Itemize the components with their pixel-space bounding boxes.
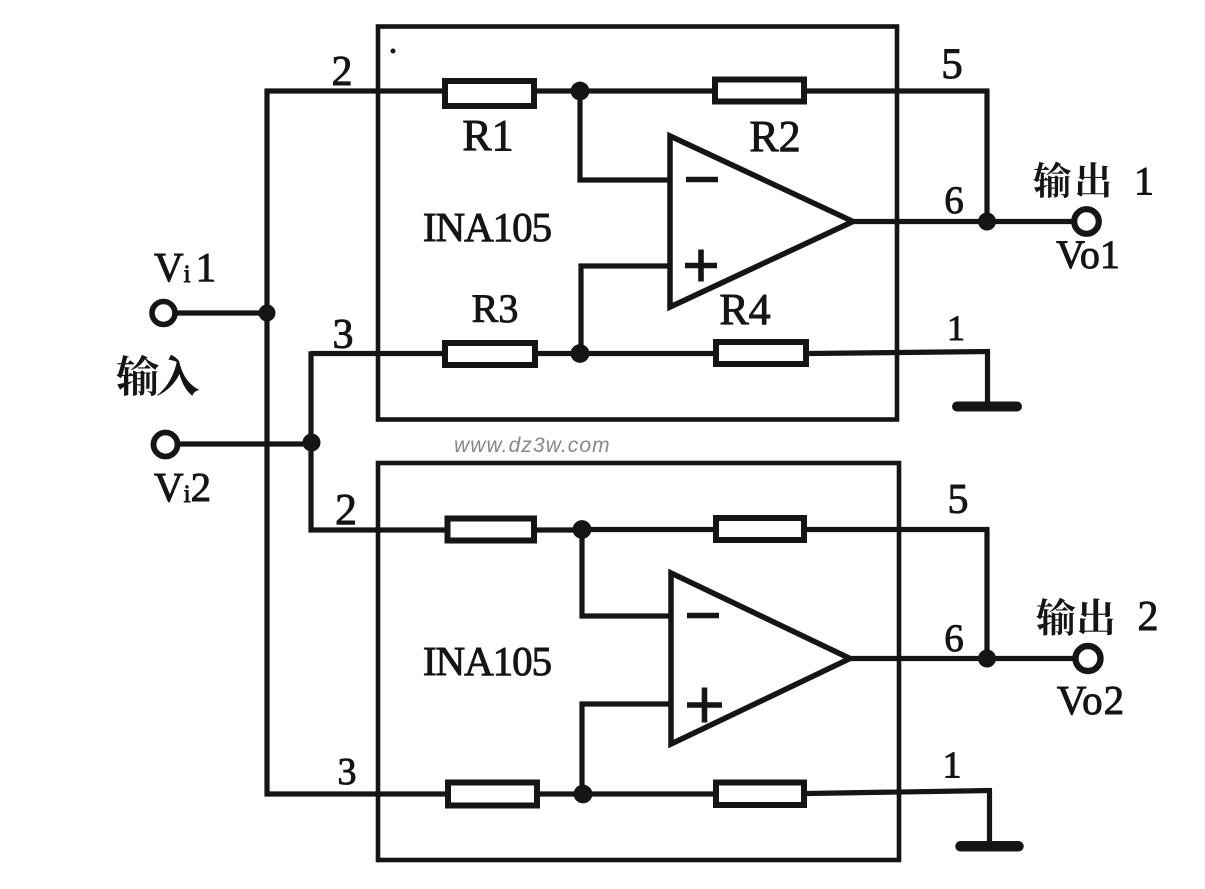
resistor R2 <box>715 80 804 102</box>
label 输出 2 (output 2) <box>1036 598 1113 636</box>
wire R1 to node A <box>537 88 582 93</box>
wire non-inverting input (node B to op-amp U1) <box>581 266 670 354</box>
svg-text:3: 3 <box>338 751 357 793</box>
resistor R1' (bottom block) <box>448 519 535 541</box>
svg-text:1: 1 <box>1134 159 1154 204</box>
svg-text:6: 6 <box>944 179 964 222</box>
node G junction dot (Vi1 tap) <box>259 305 276 322</box>
terminal Vo2 output circle <box>1076 646 1101 671</box>
wire pin1 ground drop <box>985 352 990 404</box>
op-amp U2 triangle <box>671 573 850 744</box>
svg-text:2: 2 <box>335 485 357 534</box>
svg-text:R1: R1 <box>462 111 513 160</box>
svg-text:1: 1 <box>947 308 965 348</box>
op-amp U1 triangle <box>670 136 853 307</box>
wire Vi1 to bus 1 <box>176 310 267 315</box>
node E junction dot <box>574 785 593 804</box>
svg-text:R4: R4 <box>719 285 770 334</box>
ground symbol (top) <box>957 402 1017 412</box>
svg-text:5: 5 <box>948 477 969 523</box>
wire pin2 row bottom (elbow to resistor) <box>309 527 448 532</box>
wire pin1 ground drop (bottom) <box>987 791 992 844</box>
terminal Vi2 input circle <box>154 433 178 457</box>
wire R4 to pin1 (ground) <box>809 352 990 354</box>
wire node A to R2 <box>580 88 714 93</box>
svg-text:INA105: INA105 <box>423 638 551 684</box>
resistor R1 <box>445 81 534 106</box>
wire non-inverting input op-amp U2 <box>582 704 671 794</box>
svg-text:6: 6 <box>944 617 964 660</box>
node B junction dot <box>571 344 590 363</box>
wire input bus 2 vertical (Vi2 net) <box>308 351 313 532</box>
ink speck artifact <box>391 49 396 54</box>
wire R2 to pin5 corner <box>807 88 990 93</box>
svg-text:3: 3 <box>333 312 354 358</box>
wire node B to R4 <box>580 351 715 356</box>
resistor R3 <box>445 343 535 365</box>
wire pin3 row top (left elbow to R3) <box>311 351 444 356</box>
svg-text:2: 2 <box>332 49 353 95</box>
wire node D to R2' <box>582 527 715 532</box>
svg-text:Vo1: Vo1 <box>1056 232 1120 277</box>
wire inverting input (node A to op-amp U1) <box>580 91 670 180</box>
terminal Vo1 output circle <box>1074 209 1099 234</box>
svg-text:INA105: INA105 <box>423 204 551 250</box>
terminal Vi1 input circle <box>152 302 175 325</box>
wire output pin6 row <box>853 219 1074 224</box>
wire inverting input op-amp U2 <box>582 530 671 617</box>
ground symbol (bottom) <box>961 841 1019 852</box>
node F output junction dot <box>978 650 996 668</box>
IC body box U2 INA105 (bottom) <box>378 463 899 860</box>
wire to node D <box>537 527 584 532</box>
IC body box U1 INA105 (top) <box>378 27 897 420</box>
label 输入 (input) <box>116 355 199 396</box>
svg-text:Vo2: Vo2 <box>1057 677 1125 723</box>
wire input bus 1 vertical (Vi1 net) <box>264 89 269 797</box>
wire pin2 row top (input to R1) <box>265 88 446 93</box>
resistor R3' (bottom block) <box>448 783 537 806</box>
svg-text:www.dz3w.com: www.dz3w.com <box>454 434 611 457</box>
wire pin3 row bottom <box>265 791 447 796</box>
wire R4' to pin1 (bottom) <box>807 791 992 794</box>
resistor R4 <box>716 342 806 364</box>
node A junction dot <box>571 82 590 101</box>
wire Vi2 to bus 2 <box>179 441 316 446</box>
wire R3' to node E <box>540 791 585 796</box>
node C output junction dot <box>978 213 996 231</box>
resistor R4' (bottom block) <box>716 783 804 806</box>
wire R3 to node B <box>538 351 582 356</box>
wire pin5 vertical feedback (bottom) <box>984 530 989 659</box>
op-amp U1 plus sign <box>685 250 717 282</box>
node H junction dot (Vi2 tap) <box>303 434 321 452</box>
wire output pin6 row (bottom) <box>850 656 1074 661</box>
svg-text:R3: R3 <box>472 286 519 331</box>
wire node E to R4' <box>583 791 715 796</box>
resistor R2' (bottom block) <box>716 518 804 540</box>
svg-text:2: 2 <box>1138 594 1159 640</box>
svg-text:1: 1 <box>943 745 962 787</box>
svg-text:R2: R2 <box>749 112 800 161</box>
svg-text:5: 5 <box>941 41 963 88</box>
label 输出 1 (output 1) <box>1033 162 1109 199</box>
wire R2' to pin5 corner (bottom) <box>807 527 990 532</box>
wire pin5 vertical feedback <box>984 91 989 222</box>
svg-text:Vi2: Vi2 <box>154 464 211 510</box>
op-amp U1 minus sign <box>686 177 718 183</box>
node D junction dot <box>573 520 592 539</box>
op-amp U2 minus sign <box>687 613 719 619</box>
op-amp U2 plus sign <box>687 688 722 723</box>
